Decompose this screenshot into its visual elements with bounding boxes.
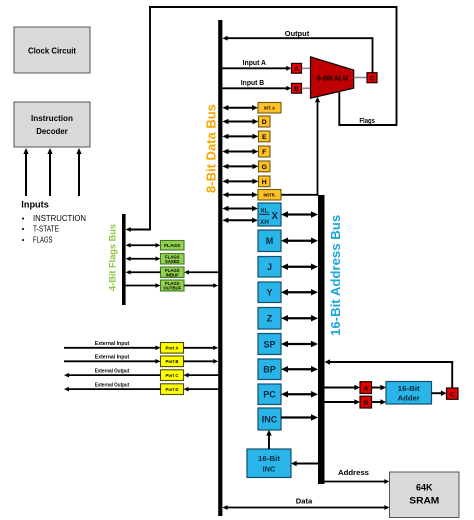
svg-text:16-Bit Address Bus: 16-Bit Address Bus xyxy=(328,215,343,336)
wire flags bus to FLAGS SAVED xyxy=(130,258,157,260)
svg-text:External Input: External Input xyxy=(95,341,130,347)
wire data bus to register H xyxy=(227,180,253,182)
svg-text:SAVED: SAVED xyxy=(165,259,180,264)
svg-text:A: A xyxy=(363,386,368,393)
register FLAGS INBUF xyxy=(161,267,185,278)
ALU result register C xyxy=(367,73,377,83)
svg-text:J: J xyxy=(267,262,272,272)
wire BP to address bus xyxy=(287,368,312,370)
svg-text:T-STATE: T-STATE xyxy=(33,225,59,234)
register FLAGS xyxy=(161,241,185,251)
wire J to address bus xyxy=(287,266,312,268)
wire input B xyxy=(222,87,287,89)
wire external input to Port A xyxy=(64,347,157,349)
register PC xyxy=(258,384,281,405)
wire data bus to XL xyxy=(227,208,253,210)
register D xyxy=(259,116,271,127)
16-bit INC block xyxy=(247,449,291,478)
wire data bus to register G xyxy=(227,165,253,167)
wire instruction input 1 xyxy=(25,153,27,196)
svg-text:B: B xyxy=(363,400,368,407)
svg-text:Adder: Adder xyxy=(398,394,420,403)
64K SRAM block xyxy=(390,472,460,518)
svg-text:A: A xyxy=(294,66,299,73)
svg-text:XH: XH xyxy=(260,219,269,226)
wire M to address bus xyxy=(287,240,312,242)
wire adder to adder C xyxy=(432,392,442,394)
svg-text:Inputs: Inputs xyxy=(21,200,49,211)
register INT. A xyxy=(258,103,281,114)
svg-text:Z: Z xyxy=(267,314,273,324)
wire flags (ALU to flags bus) xyxy=(130,7,397,230)
svg-text:8-Bit ALU: 8-Bit ALU xyxy=(317,73,348,82)
wire data bus to register F xyxy=(227,151,253,153)
register G xyxy=(259,161,271,172)
svg-text:Port B: Port B xyxy=(166,359,179,365)
wire flags bus to FLAGS xyxy=(130,244,157,246)
svg-text:•: • xyxy=(22,214,25,223)
svg-text:8-Bit Data Bus: 8-Bit Data Bus xyxy=(204,104,219,193)
svg-text:C: C xyxy=(370,76,375,83)
svg-text:C: C xyxy=(450,392,455,399)
wire 16-bit INC to INC register xyxy=(268,435,270,449)
svg-text:Output: Output xyxy=(285,29,310,38)
wire adder C to address bus xyxy=(451,362,453,388)
svg-text:Flags: Flags xyxy=(359,118,375,125)
adder operand register A xyxy=(360,382,372,394)
svg-text:16-Bit: 16-Bit xyxy=(398,384,421,393)
wire address bus to 16-bit INC xyxy=(296,463,318,465)
wire ALU to C xyxy=(354,77,367,79)
wire Port C to external output xyxy=(68,374,161,376)
wire B to ALU xyxy=(302,87,311,89)
wire SP to address bus xyxy=(287,343,312,345)
16-bit address bus xyxy=(318,195,325,484)
svg-text:Decoder: Decoder xyxy=(36,126,68,136)
svg-text:Data: Data xyxy=(296,496,313,505)
wire adder A to adder xyxy=(372,387,382,389)
port Port D xyxy=(161,384,184,395)
register BP xyxy=(258,359,281,380)
wire external input to Port B xyxy=(64,360,157,362)
wire Z to address bus xyxy=(287,317,312,319)
wire FLAGS INBUF to flags bus xyxy=(130,271,161,273)
register F xyxy=(259,146,271,157)
wire instruction to ALU xyxy=(281,194,318,196)
wire data bus to Port D xyxy=(188,388,219,390)
16-bit adder block xyxy=(386,382,432,405)
svg-text:64K: 64K xyxy=(416,483,433,493)
register INC xyxy=(258,408,281,430)
port Port B xyxy=(161,356,184,367)
svg-text:•: • xyxy=(22,235,25,244)
svg-text:PC: PC xyxy=(263,390,276,400)
wire address bus to adder B xyxy=(325,401,356,403)
wire address to SRAM xyxy=(325,481,386,483)
svg-text:H: H xyxy=(262,179,267,186)
wire address bus to adder A xyxy=(325,387,356,389)
svg-text:Port D: Port D xyxy=(166,387,179,393)
register X xyxy=(258,203,281,226)
svg-text:G: G xyxy=(262,164,267,171)
wire data bus to FLAGS INBUF xyxy=(188,271,218,273)
wire output (ALU C to data bus) xyxy=(227,37,373,39)
register FLAGS OUTBUF xyxy=(161,280,185,291)
8-bit data bus xyxy=(218,20,222,516)
svg-text:D: D xyxy=(262,119,267,126)
wire PC to address bus xyxy=(287,393,312,395)
register SP xyxy=(258,334,281,355)
wire data bus to XH xyxy=(227,219,253,221)
svg-text:SP: SP xyxy=(263,339,275,349)
adder operand register B xyxy=(360,396,372,408)
wire data bus to SRAM xyxy=(227,507,386,509)
clock circuit block xyxy=(14,27,90,73)
svg-text:F: F xyxy=(262,149,266,156)
register INSTR. xyxy=(258,190,281,201)
svg-text:External Output: External Output xyxy=(95,382,130,388)
wire Port A to data bus xyxy=(184,347,215,349)
wire data bus to register INT. A xyxy=(227,107,253,109)
svg-text:4-Bit Flags Bus: 4-Bit Flags Bus xyxy=(108,224,118,291)
register H xyxy=(259,176,271,187)
svg-text:Input B: Input B xyxy=(241,78,264,87)
wire data bus to register E xyxy=(227,135,253,137)
op-amp style 8-bit ALU xyxy=(311,57,354,98)
wire A to ALU xyxy=(302,67,311,69)
svg-text:FLAGS: FLAGS xyxy=(164,243,181,249)
wire FLAGS OUTBUF to data bus xyxy=(184,285,214,287)
4-bit flags bus xyxy=(122,214,126,305)
svg-text:16-Bit: 16-Bit xyxy=(258,454,281,463)
svg-text:Y: Y xyxy=(266,288,272,298)
svg-text:External Output: External Output xyxy=(95,368,130,374)
svg-text:Port A: Port A xyxy=(166,346,179,352)
svg-text:•: • xyxy=(22,225,25,234)
svg-text:INSTR.: INSTR. xyxy=(264,192,276,197)
svg-text:Clock Circuit: Clock Circuit xyxy=(28,46,76,56)
wire Port D to external output xyxy=(68,388,161,390)
svg-text:Port C: Port C xyxy=(166,373,179,379)
svg-text:BP: BP xyxy=(263,365,276,375)
register Y xyxy=(258,282,281,303)
instruction decoder block xyxy=(14,102,90,147)
wire data bus to Port C xyxy=(188,374,219,376)
wire data bus to register INSTR. xyxy=(227,194,253,196)
svg-text:X: X xyxy=(272,211,279,222)
adder result register C xyxy=(447,388,459,399)
register E xyxy=(259,131,271,142)
svg-text:FLAGS: FLAGS xyxy=(33,235,53,244)
wire INC to address bus xyxy=(281,416,312,418)
wire Y to address bus xyxy=(287,291,312,293)
wire adder B to adder xyxy=(372,401,382,403)
svg-text:M: M xyxy=(266,236,274,246)
register J xyxy=(258,257,281,278)
svg-text:Instruction: Instruction xyxy=(31,113,73,123)
wire flags input xyxy=(78,153,80,196)
wire data bus to register D xyxy=(227,121,253,123)
svg-text:External Input: External Input xyxy=(95,355,130,361)
svg-text:INSTRUCTION: INSTRUCTION xyxy=(33,214,86,223)
wire t-state input xyxy=(49,153,51,196)
port Port C xyxy=(161,370,184,381)
svg-text:OUTBUF: OUTBUF xyxy=(163,286,181,291)
svg-text:INC: INC xyxy=(263,465,276,474)
wire X to address bus xyxy=(287,213,312,215)
register M xyxy=(258,230,281,252)
svg-text:XL: XL xyxy=(260,208,268,215)
svg-text:INT. A: INT. A xyxy=(264,105,275,110)
wire flags bus to FLAGS OUTBUF xyxy=(126,285,157,287)
wire input A xyxy=(222,67,287,69)
register FLAGS SAVED xyxy=(161,254,185,265)
svg-text:Address: Address xyxy=(338,468,369,477)
ALU operand register B xyxy=(292,83,302,93)
port Port A xyxy=(161,343,184,354)
wire Port B to data bus xyxy=(184,360,215,362)
svg-text:Input A: Input A xyxy=(243,58,266,67)
svg-text:INC: INC xyxy=(262,414,278,424)
svg-text:SRAM: SRAM xyxy=(409,496,439,506)
ALU operand register A xyxy=(292,63,302,73)
svg-text:B: B xyxy=(294,86,299,93)
svg-text:E: E xyxy=(262,134,267,141)
svg-text:INBUF: INBUF xyxy=(166,272,180,277)
register Z xyxy=(258,308,281,330)
